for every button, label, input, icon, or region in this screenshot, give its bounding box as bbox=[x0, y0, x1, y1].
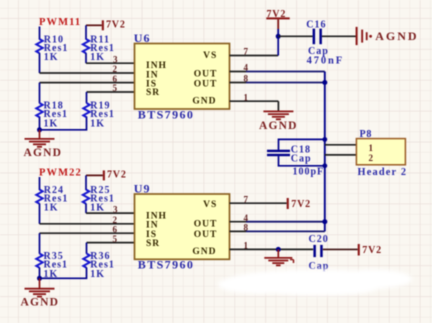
pin number 1 bbox=[244, 92, 249, 102]
wire R35 R36 bottoms joined bbox=[40, 268, 87, 279]
svg-text:5: 5 bbox=[113, 234, 118, 244]
label Header 2 bbox=[358, 167, 408, 178]
svg-text:Cap: Cap bbox=[291, 154, 312, 165]
svg-text:1K: 1K bbox=[90, 269, 105, 280]
svg-text:3: 3 bbox=[113, 54, 118, 64]
wire pin 8 OUT of U6 bbox=[230, 82, 325, 84]
wire pin 4 OUT of U9 bbox=[230, 221, 325, 223]
wire P8 pin1 stub bbox=[325, 144, 357, 146]
power 7V2 (top left) bbox=[102, 20, 126, 31]
wire OUT rail vertical bbox=[324, 72, 326, 232]
wire pin 3 INH of U6 bbox=[86, 62, 135, 64]
svg-text:BTS7960: BTS7960 bbox=[138, 258, 194, 272]
wire pin 6 IS of U9 bbox=[40, 232, 135, 234]
wire P8 pin2 stub bbox=[325, 154, 357, 156]
label R35 Res1 1K bbox=[44, 251, 69, 280]
wire PWM22 to R24 bbox=[39, 177, 41, 190]
svg-text:AGND: AGND bbox=[21, 297, 60, 309]
svg-text:SR: SR bbox=[146, 239, 160, 249]
svg-text:PWM11: PWM11 bbox=[39, 17, 81, 28]
svg-text:U6: U6 bbox=[134, 31, 151, 45]
power 7V2 (top center) bbox=[266, 9, 289, 37]
wire pin 7 VS of U6 bbox=[230, 36, 279, 55]
power 7V2 (near R25) bbox=[103, 170, 127, 181]
capacitor C16 bbox=[313, 29, 322, 45]
label R10 Res1 1K bbox=[44, 35, 69, 63]
svg-text:AGND: AGND bbox=[259, 120, 298, 132]
pin number 8 bbox=[244, 223, 249, 233]
svg-text:OUT: OUT bbox=[194, 69, 218, 79]
svg-text:GND: GND bbox=[192, 247, 216, 257]
wire pin 6 IS of U6 bbox=[40, 82, 135, 84]
wire pin6 down to R35 bbox=[39, 233, 41, 254]
label R18 Res1 1K bbox=[44, 101, 69, 130]
wire junction to C16 bbox=[278, 35, 312, 37]
wire pin 8 OUT of U9 bbox=[230, 230, 325, 232]
svg-text:BTS7960: BTS7960 bbox=[138, 107, 194, 121]
pin number 8 bbox=[244, 74, 249, 84]
wire pin5 down to R19 bbox=[86, 92, 88, 103]
pin number 3 bbox=[113, 54, 118, 64]
junction R35 bottom bbox=[37, 276, 42, 281]
svg-text:470nF: 470nF bbox=[307, 55, 345, 66]
wire 7V2 to R11 bbox=[86, 25, 102, 39]
capacitor C18 bbox=[267, 150, 290, 157]
wire pin 2 IN of U6 bbox=[40, 72, 135, 74]
svg-text:5: 5 bbox=[113, 83, 118, 93]
wire R25 to pin3 bbox=[85, 204, 87, 214]
svg-text:1K: 1K bbox=[44, 52, 59, 63]
svg-text:1K: 1K bbox=[44, 203, 59, 214]
svg-text:7: 7 bbox=[244, 194, 249, 204]
wire C16 to AGND bbox=[322, 35, 356, 37]
wire pin 1 GND of U6 bbox=[230, 101, 279, 110]
net label PWM11 bbox=[39, 17, 81, 28]
resistor R19 bbox=[83, 103, 89, 117]
svg-text:2: 2 bbox=[113, 64, 118, 74]
wire C20 to 7V2 bbox=[323, 248, 358, 250]
pin number 4 bbox=[244, 63, 249, 73]
erased watermark blob bbox=[218, 270, 412, 296]
resistor R24 bbox=[36, 190, 42, 204]
wire pin 5 SR of U9 bbox=[87, 242, 135, 244]
wire pin 3 INH of U9 bbox=[86, 212, 135, 214]
svg-text:SR: SR bbox=[146, 88, 160, 98]
svg-text:GND: GND bbox=[192, 97, 216, 107]
resistor R10 bbox=[36, 39, 42, 53]
power 7V2 (right of pin 7) bbox=[287, 198, 311, 210]
label C18 Cap 100pF bbox=[291, 144, 324, 177]
svg-text:C16: C16 bbox=[306, 20, 326, 31]
connector P8 bbox=[356, 129, 405, 165]
pin number 3 bbox=[113, 204, 118, 214]
label C16 Cap 470nF bbox=[306, 20, 344, 67]
junction node 7V2/C16 bbox=[276, 34, 281, 39]
svg-text:U9: U9 bbox=[134, 182, 151, 196]
svg-text:AGND: AGND bbox=[24, 147, 63, 159]
label R36 Res1 1K bbox=[90, 251, 115, 280]
capacitor C20 bbox=[313, 245, 322, 257]
pin number 1 bbox=[244, 241, 249, 251]
svg-text:7: 7 bbox=[244, 47, 249, 57]
wire pin 7 VS of U9 bbox=[230, 202, 287, 204]
wire pin 2 IN of U9 bbox=[40, 223, 135, 225]
junction R18 bottom bbox=[37, 127, 42, 132]
net label PWM22 bbox=[39, 168, 82, 179]
svg-text:7V2: 7V2 bbox=[291, 199, 311, 210]
pin number 6 bbox=[113, 224, 118, 234]
svg-text:OUT: OUT bbox=[194, 230, 218, 240]
label R11 Res1 1K bbox=[90, 35, 115, 63]
wire 7V2 to R25 bbox=[86, 175, 103, 190]
svg-text:Header 2: Header 2 bbox=[358, 167, 408, 178]
svg-text:OUT: OUT bbox=[194, 220, 218, 230]
pin number 7 bbox=[244, 47, 249, 57]
resistor R18 bbox=[36, 103, 42, 117]
svg-text:P8: P8 bbox=[360, 129, 373, 140]
svg-text:3: 3 bbox=[113, 204, 118, 214]
pin number 6 bbox=[113, 74, 118, 84]
power 7V2 (right of C20) bbox=[358, 244, 382, 256]
wire pin 4 OUT of U6 bbox=[230, 71, 325, 73]
resistor R11 bbox=[83, 39, 89, 53]
svg-text:1K: 1K bbox=[44, 118, 59, 129]
wire R11 to pin3 bbox=[85, 53, 87, 63]
svg-text:7V2: 7V2 bbox=[362, 245, 382, 256]
svg-text:100pF: 100pF bbox=[293, 166, 325, 177]
wire pin5 down to R36 bbox=[86, 243, 88, 254]
svg-text:VS: VS bbox=[203, 51, 217, 61]
resistor R36 bbox=[83, 254, 89, 268]
pin number 2 bbox=[113, 215, 118, 225]
wire R24 to pin2 bbox=[39, 204, 41, 224]
label BTS7960 bbox=[138, 258, 194, 272]
junction C18 top on rail bbox=[322, 137, 327, 142]
wire R10 to pin2 bbox=[39, 53, 41, 73]
wire C18 top tap bbox=[279, 139, 325, 150]
wire pin 5 SR of U6 bbox=[87, 91, 135, 93]
junction OUT rail pin8 bbox=[322, 80, 327, 85]
label R24 Res1 1K bbox=[44, 185, 69, 213]
svg-text:OUT: OUT bbox=[194, 79, 218, 89]
wire C18 bottom tap bbox=[279, 156, 325, 166]
resistor R25 bbox=[83, 190, 89, 204]
pin number 7 bbox=[244, 194, 249, 204]
pin number 2 bbox=[113, 64, 118, 74]
junction pin1/ground/C20 bbox=[276, 247, 281, 252]
svg-text:1K: 1K bbox=[90, 118, 105, 129]
wire pin 1 GND of U9 bbox=[230, 248, 314, 250]
svg-text:4: 4 bbox=[244, 63, 249, 73]
svg-text:1K: 1K bbox=[90, 203, 105, 214]
ground AGND (below pin 1 of U6) bbox=[259, 111, 298, 131]
label C20 Cap bbox=[309, 234, 330, 272]
label R19 Res1 1K bbox=[90, 101, 115, 130]
svg-text:8: 8 bbox=[244, 74, 249, 84]
svg-text:1K: 1K bbox=[90, 52, 105, 63]
svg-text:C20: C20 bbox=[309, 234, 329, 245]
wire R18 R19 bottoms joined bbox=[40, 117, 87, 130]
wire PWM11 to R10 bbox=[39, 27, 41, 40]
op-amp U9 (BTS7960 driver) bbox=[134, 182, 230, 260]
ground AGND (sideways, right of C16) bbox=[356, 27, 419, 45]
svg-text:VS: VS bbox=[203, 200, 217, 210]
junction OUT rail pin4 bbox=[322, 219, 327, 224]
svg-text:8: 8 bbox=[244, 223, 249, 233]
label R25 Res1 1K bbox=[90, 185, 115, 213]
svg-text:7V2: 7V2 bbox=[107, 170, 127, 181]
svg-text:7V2: 7V2 bbox=[106, 20, 126, 31]
junction C18 bottom on rail bbox=[322, 163, 327, 168]
ground AGND (below R18) bbox=[24, 130, 63, 159]
svg-text:PWM22: PWM22 bbox=[39, 168, 82, 179]
label BTS7960 bbox=[138, 107, 194, 121]
pin number 4 bbox=[244, 213, 249, 223]
resistor R35 bbox=[36, 254, 42, 268]
wire pin6 down to R18 bbox=[39, 83, 41, 104]
svg-text:1: 1 bbox=[244, 92, 249, 102]
svg-text:4: 4 bbox=[244, 213, 249, 223]
op-amp U6 (BTS7960 driver) bbox=[134, 31, 230, 109]
ground AGND (bottom left) bbox=[21, 278, 60, 308]
svg-text:1: 1 bbox=[369, 143, 374, 153]
ground (below pin 1 of U9) bbox=[264, 249, 293, 265]
pin number 5 bbox=[113, 83, 118, 93]
svg-text:2: 2 bbox=[369, 153, 374, 163]
pin number 5 bbox=[113, 234, 118, 244]
svg-text:1: 1 bbox=[244, 241, 249, 251]
svg-text:AGND: AGND bbox=[375, 29, 418, 43]
